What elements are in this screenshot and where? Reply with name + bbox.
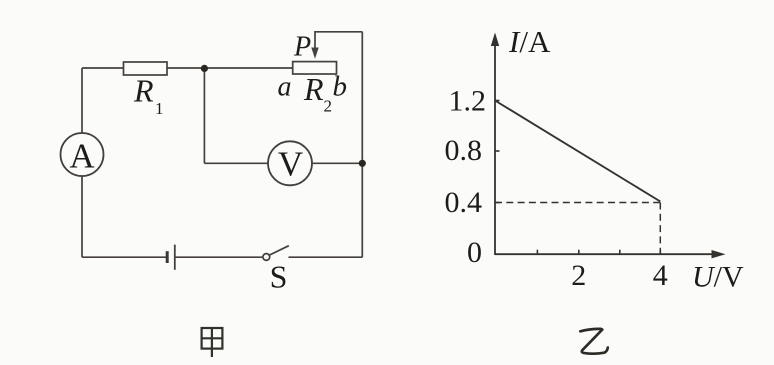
node junction at voltmeter right on rail xyxy=(359,160,366,167)
resistor R1 xyxy=(124,62,168,75)
caption 乙 (drawn) xyxy=(580,329,608,354)
svg-text:b: b xyxy=(333,71,348,103)
I-U characteristic line xyxy=(495,101,660,202)
wire right vertical rail xyxy=(361,32,363,257)
dashed line horizontal at I=0.4 xyxy=(495,202,660,204)
svg-text:R: R xyxy=(133,73,154,109)
svg-text:A: A xyxy=(69,137,95,176)
wire voltmeter right horizontal xyxy=(312,162,362,164)
wire top-left horizontal (left corner to R1) xyxy=(82,67,123,69)
svg-text:2: 2 xyxy=(324,97,333,116)
wire battery to switch xyxy=(175,256,263,258)
svg-text:V: V xyxy=(278,144,303,183)
svg-text:R: R xyxy=(303,71,324,107)
wire slider P vertical and top horizontal to right rail xyxy=(315,32,362,50)
wire voltmeter left horizontal xyxy=(204,162,268,164)
svg-text:P: P xyxy=(293,32,311,63)
dashed line vertical at U=4 xyxy=(659,203,661,255)
caption 甲 (drawn) xyxy=(202,328,223,357)
svg-text:S: S xyxy=(270,259,288,295)
node junction at R1/R2/voltmeter branch xyxy=(201,65,208,72)
svg-text:0.8: 0.8 xyxy=(445,134,483,167)
switch S xyxy=(263,254,270,261)
x-axis ticks xyxy=(537,250,660,255)
wire left vertical upper (corner to ammeter) xyxy=(81,68,83,133)
svg-text:U/V: U/V xyxy=(692,261,744,294)
svg-text:a: a xyxy=(278,72,292,103)
wire bottom left (corner to battery) xyxy=(82,256,167,258)
svg-text:1: 1 xyxy=(155,99,164,118)
y-axis ticks xyxy=(495,101,500,203)
wire junction vertical (node to voltmeter branch) xyxy=(203,68,205,163)
resistor R2 (rheostat body) xyxy=(293,62,337,74)
svg-text:0: 0 xyxy=(467,236,482,269)
wire R1 to R2 xyxy=(167,67,293,69)
ammeter A xyxy=(61,133,104,176)
slider P arrowhead xyxy=(311,48,318,59)
svg-text:I/A: I/A xyxy=(508,24,551,59)
wire switch to bottom-right corner xyxy=(289,256,363,258)
svg-text:0.4: 0.4 xyxy=(445,186,483,219)
y-axis xyxy=(494,40,496,255)
battery cell xyxy=(166,251,169,263)
svg-text:4: 4 xyxy=(653,259,668,292)
svg-text:2: 2 xyxy=(571,259,586,292)
wire left vertical lower (ammeter to bottom) xyxy=(81,176,83,257)
x-axis xyxy=(495,253,717,255)
svg-text:1.2: 1.2 xyxy=(449,85,487,118)
voltmeter V xyxy=(268,141,312,185)
